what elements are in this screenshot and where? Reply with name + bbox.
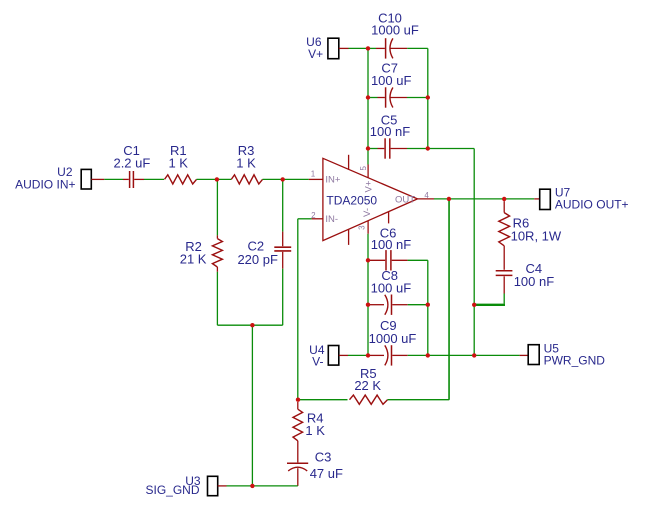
svg-text:PWR_GND: PWR_GND xyxy=(544,354,606,368)
junction V+ / C5 xyxy=(366,146,370,150)
pin number 5 xyxy=(359,166,368,171)
junction right bus / C9 row xyxy=(426,353,430,357)
junction IN- / R5 / R4 xyxy=(296,398,300,402)
svg-text:V-: V- xyxy=(312,354,323,368)
svg-text:TDA2050: TDA2050 xyxy=(326,194,377,208)
svg-text:100 uF: 100 uF xyxy=(371,73,412,88)
op-amp unused stub top xyxy=(348,155,350,170)
wire C9 to U5 xyxy=(408,354,520,356)
label C1 / 2.2 uF xyxy=(113,143,150,170)
wire feedback vertical xyxy=(448,199,450,400)
svg-text:1 K: 1 K xyxy=(168,155,188,170)
resistor R1 xyxy=(165,175,197,184)
connector U5 xyxy=(520,345,540,365)
capacitor C6 xyxy=(368,250,428,270)
junction V+ / C7 xyxy=(366,95,370,99)
resistor R4 xyxy=(293,402,303,447)
pin name IN- xyxy=(325,214,338,225)
label R4 / 1 K xyxy=(305,411,325,438)
label C3 / 47 uF xyxy=(310,449,343,481)
svg-text:10R, 1W: 10R, 1W xyxy=(511,229,562,244)
label U4 / V- xyxy=(309,343,325,369)
svg-text:1 K: 1 K xyxy=(236,155,256,170)
svg-text:V-: V- xyxy=(362,208,373,217)
junction right bus / C5 xyxy=(426,146,430,150)
svg-text:5: 5 xyxy=(359,166,368,171)
connector U6 xyxy=(328,38,349,59)
wire GND bus vertical right xyxy=(473,149,475,356)
label C8 / 100 uF xyxy=(371,268,412,296)
svg-text:V+: V+ xyxy=(363,180,374,192)
pin name V+ xyxy=(363,180,374,192)
capacitor C2 xyxy=(274,179,291,325)
resistor R6 xyxy=(499,201,510,270)
op-amp pin 4 OUT xyxy=(418,198,435,200)
capacitor C5 xyxy=(368,138,474,158)
op-amp pin 3 V- xyxy=(367,221,369,234)
wire V- bus vertical xyxy=(367,234,369,356)
junction right bus / C7 xyxy=(426,95,430,99)
svg-text:4: 4 xyxy=(424,191,429,200)
label R6 / 10R, 1W xyxy=(511,215,562,243)
junction V- / C6 xyxy=(366,258,370,262)
connector U2 xyxy=(81,169,104,189)
wire IN- net xyxy=(298,219,312,400)
op-amp unused stub bottom-right xyxy=(388,212,390,224)
wire SIG_GND row xyxy=(227,485,298,487)
capacitor C8 (polarized, arc left) xyxy=(368,295,428,315)
capacitor C9 (polarized, arc left) xyxy=(368,345,408,365)
junction V+ / C10 xyxy=(366,46,370,50)
wire R5 right to OUT xyxy=(388,199,450,400)
svg-text:IN+: IN+ xyxy=(325,175,341,186)
svg-text:100 nF: 100 nF xyxy=(371,237,412,252)
op-amp pin 1 IN+ xyxy=(309,178,323,180)
svg-text:1000 uF: 1000 uF xyxy=(371,22,419,37)
wire U4 to V- node xyxy=(348,354,368,356)
op-amp unused stub bottom xyxy=(348,229,350,245)
junction right bus / C8 xyxy=(426,303,430,307)
pin name IN+ xyxy=(325,175,341,186)
wire node down to R2 xyxy=(216,179,218,235)
pin number 1 xyxy=(311,170,316,179)
wire right bus top xyxy=(427,48,429,148)
svg-text:C3: C3 xyxy=(315,449,332,464)
wire V+ bus vertical xyxy=(367,48,369,164)
svg-text:1 K: 1 K xyxy=(305,423,325,438)
svg-text:100 nF: 100 nF xyxy=(514,274,555,289)
connector U7 xyxy=(534,189,550,209)
svg-text:100 nF: 100 nF xyxy=(370,124,411,139)
label U3 / SIG_GND xyxy=(145,474,200,497)
wire OUT to U7 xyxy=(434,198,534,200)
junction R1/R2 node xyxy=(215,177,219,181)
connector U4 xyxy=(328,346,348,366)
label C5 / 100 nF xyxy=(370,113,411,139)
svg-text:V+: V+ xyxy=(308,47,323,61)
svg-text:1: 1 xyxy=(311,170,316,179)
resistor R2 xyxy=(212,235,222,271)
label R5 / 22 K xyxy=(354,366,381,393)
junction OUT / R6 xyxy=(502,197,506,201)
svg-text:3: 3 xyxy=(357,225,366,230)
op-amp pin 5 V+ xyxy=(367,165,369,178)
wire R2 bottom xyxy=(217,272,282,325)
label R1 / 1 K xyxy=(168,143,188,170)
op-amp pin 2 IN- xyxy=(312,218,323,220)
junction V- / C9 / U4 xyxy=(366,353,370,357)
junction V- / C8 xyxy=(366,303,370,307)
svg-text:AUDIO IN+: AUDIO IN+ xyxy=(15,177,75,191)
pin number 4 xyxy=(424,191,429,200)
label C9 / 1000 uF xyxy=(369,318,417,346)
capacitor C10 (polarized) xyxy=(368,38,428,58)
capacitor C7 (polarized) xyxy=(368,87,428,107)
svg-text:100 uF: 100 uF xyxy=(371,280,412,295)
wire SIG_GND vertical xyxy=(251,325,253,486)
junction R3/C2 node xyxy=(281,177,285,181)
capacitor C1 xyxy=(123,171,144,188)
svg-text:2.2 uF: 2.2 uF xyxy=(113,155,150,170)
svg-text:C2: C2 xyxy=(247,238,264,253)
capacitor C4 xyxy=(474,271,513,305)
resistor R3 xyxy=(231,175,262,184)
svg-text:AUDIO OUT+: AUDIO OUT+ xyxy=(555,197,629,211)
pin name OUT xyxy=(395,194,415,205)
pin number 2 xyxy=(311,211,316,220)
label R3 / 1 K xyxy=(236,143,256,170)
svg-text:220 pF: 220 pF xyxy=(237,252,278,267)
connector U3 xyxy=(208,476,227,495)
label C6 / 100 nF xyxy=(371,225,412,252)
svg-text:SIG_GND: SIG_GND xyxy=(145,483,199,497)
svg-text:22 K: 22 K xyxy=(354,378,381,393)
wire R3 to op-amp IN+ xyxy=(263,178,309,180)
label TDA2050 xyxy=(326,194,377,208)
wire right bus middle xyxy=(427,260,429,355)
junction bottom node to SIG_GND xyxy=(250,323,254,327)
svg-text:OUT: OUT xyxy=(395,194,415,205)
svg-text:IN-: IN- xyxy=(325,214,338,225)
wire C1 to R1 xyxy=(144,178,164,180)
label R2 / 21 K xyxy=(180,239,207,266)
op-amp U1 TDA2050 triangle xyxy=(323,158,418,240)
label C7 / 100 uF xyxy=(371,61,412,89)
pin number 3 xyxy=(357,225,366,230)
pin name V- xyxy=(362,208,373,217)
label U5 / PWR_GND xyxy=(544,341,606,367)
svg-text:21 K: 21 K xyxy=(180,251,207,266)
wire R5 left xyxy=(298,399,348,401)
label U7 / AUDIO OUT+ xyxy=(555,186,629,212)
wire R1 to R3 xyxy=(197,178,232,180)
wire U6 to V+ node xyxy=(349,47,369,49)
junction SIG_GND xyxy=(250,484,254,488)
label C4 / 100 nF xyxy=(514,261,555,289)
label C2 / 220 pF xyxy=(237,238,278,267)
label C10 / 1000 uF xyxy=(371,11,419,38)
label U2 / AUDIO IN+ xyxy=(15,165,75,191)
junction OUT / feedback xyxy=(447,197,451,201)
junction PWR row / GND bus xyxy=(472,353,476,357)
capacitor C3 (polarized, arc bottom) xyxy=(287,447,308,486)
svg-text:2: 2 xyxy=(311,211,316,220)
resistor R5 xyxy=(350,395,388,404)
junction GND bus / C4 xyxy=(472,303,476,307)
svg-text:47 uF: 47 uF xyxy=(310,466,343,481)
wire U2 to C1 xyxy=(104,178,123,180)
svg-text:1000 uF: 1000 uF xyxy=(369,331,417,346)
label U6 / V+ xyxy=(306,35,323,61)
